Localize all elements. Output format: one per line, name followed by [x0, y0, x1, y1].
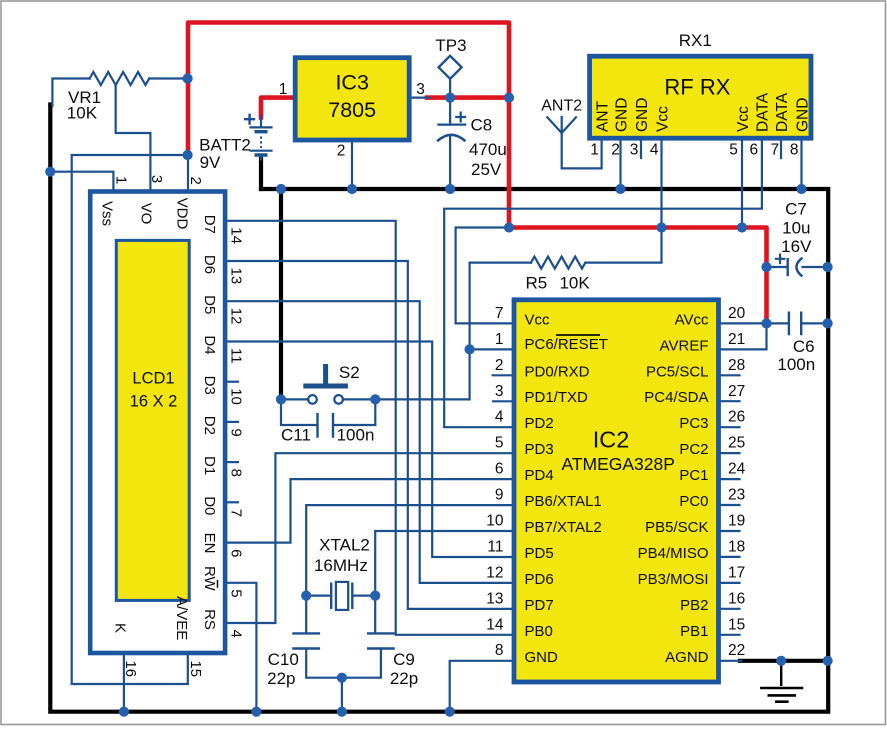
wire RX1 pin6 DATA to IC2 PD2 — [444, 138, 762, 427]
wire VR1 left lead to ground — [52, 79, 89, 107]
svg-text:7: 7 — [770, 142, 779, 159]
svg-text:5: 5 — [729, 142, 738, 159]
svg-text:PC5/SCL: PC5/SCL — [646, 363, 709, 380]
LCD D2 stub — [226, 421, 239, 423]
svg-text:3: 3 — [148, 175, 165, 183]
wire C11 right lead — [335, 399, 376, 425]
svg-text:BATT2: BATT2 — [199, 136, 251, 155]
svg-text:PD5: PD5 — [525, 545, 554, 562]
svg-text:470u: 470u — [469, 140, 507, 159]
svg-text:1: 1 — [495, 331, 504, 348]
wire RX1 pin5 to 5V — [741, 138, 743, 228]
svg-text:20: 20 — [728, 305, 746, 322]
svg-text:100n: 100n — [777, 355, 815, 374]
svg-text:PB1: PB1 — [680, 623, 708, 640]
wire 5V to LCD A pin15 — [72, 155, 188, 684]
svg-text:23: 23 — [728, 487, 745, 504]
node junction (306.2,595.6) — [301, 591, 311, 601]
node junction (509,97.6) — [504, 93, 514, 103]
svg-text:VDD: VDD — [174, 198, 191, 230]
node junction (450.1,189) — [445, 184, 455, 194]
IC2 pin2 stub — [493, 374, 514, 376]
switch S2 — [308, 395, 317, 404]
svg-text:D3: D3 — [201, 376, 218, 395]
svg-text:AVcc: AVcc — [675, 311, 709, 328]
svg-text:2: 2 — [495, 357, 504, 374]
svg-text:3: 3 — [495, 383, 504, 400]
svg-text:9: 9 — [495, 487, 504, 504]
svg-text:4: 4 — [228, 630, 245, 638]
svg-text:D5: D5 — [201, 295, 218, 314]
svg-text:AVREF: AVREF — [660, 337, 709, 354]
IC2 right unconnected pin stubs — [719, 374, 740, 376]
svg-text:26: 26 — [728, 409, 745, 426]
svg-text:4: 4 — [650, 142, 659, 159]
svg-text:K: K — [111, 623, 128, 633]
svg-text:12: 12 — [486, 564, 503, 581]
wire IC2 GND pin8 to ground bus — [450, 661, 514, 712]
battery BATT2 — [251, 126, 272, 128]
svg-text:6: 6 — [228, 549, 245, 557]
IC2 ATMEGA328P — [514, 300, 719, 682]
wire LCD RW to ground bus — [226, 583, 257, 712]
svg-text:Vcc: Vcc — [735, 106, 752, 132]
node junction (341.9,677.7) — [337, 673, 347, 683]
svg-text:PC1: PC1 — [679, 467, 708, 484]
svg-text:11: 11 — [487, 538, 503, 555]
svg-text:24: 24 — [728, 461, 746, 478]
wire 5V to LCD VDD pin2 — [187, 155, 189, 192]
capacitor C7 — [787, 258, 789, 276]
svg-text:DATA: DATA — [774, 92, 791, 132]
capacitor C8 — [438, 123, 465, 125]
svg-text:1: 1 — [590, 142, 599, 159]
svg-text:25V: 25V — [471, 160, 502, 179]
node junction (801.5,189) — [796, 184, 806, 194]
svg-text:9: 9 — [228, 428, 245, 436]
svg-text:8: 8 — [228, 469, 245, 477]
svg-text:EN: EN — [201, 533, 218, 554]
wire S2 right — [343, 398, 375, 400]
ground bus black frame — [50, 105, 828, 712]
wire battery minus lead black — [259, 159, 263, 189]
crystal leads — [306, 594, 375, 596]
svg-text:PC0: PC0 — [679, 493, 708, 510]
node junction (766.5,267) — [761, 262, 771, 272]
svg-text:28: 28 — [728, 357, 745, 374]
svg-text:1: 1 — [279, 81, 288, 98]
wire RX1 pin4 to 5V and R5 — [585, 138, 661, 263]
svg-text:16MHz: 16MHz — [314, 556, 368, 575]
wire LCD K pin16 to ground bus — [123, 653, 125, 712]
svg-text:RS: RS — [201, 609, 218, 630]
C6 leads — [767, 322, 829, 324]
svg-text:21: 21 — [728, 331, 745, 348]
svg-text:DATA: DATA — [755, 92, 772, 132]
IC RX1 RF receiver module — [590, 56, 811, 138]
svg-text:D4: D4 — [201, 335, 218, 354]
LCD1 pin RW (5) — [201, 566, 218, 592]
battery top lead — [260, 116, 262, 127]
resistor VR1 potentiometer — [90, 72, 150, 85]
svg-text:25: 25 — [728, 435, 745, 452]
wire antenna to RX1 pin1 — [562, 133, 602, 168]
svg-text:10u: 10u — [782, 219, 810, 238]
node junction (281,399.4) — [276, 394, 286, 404]
svg-text:8: 8 — [495, 642, 504, 659]
node junction (766.5,323.4) — [761, 318, 771, 328]
wire ground to LCD Vss pin1 — [50, 172, 113, 192]
svg-text:27: 27 — [728, 383, 745, 400]
node junction (469.6,349.4) — [465, 344, 475, 354]
svg-text:GND: GND — [794, 98, 811, 132]
svg-text:22p: 22p — [267, 669, 295, 688]
svg-text:16V: 16V — [781, 237, 812, 256]
wire 5V to IC2 Vcc pin7 — [456, 228, 514, 324]
node junction (661.5,227.5) — [656, 222, 666, 232]
LCD D1 stub — [226, 461, 239, 463]
svg-text:PD3: PD3 — [525, 441, 554, 458]
wire IC2 AGND pin22 — [714, 660, 741, 662]
svg-text:4: 4 — [495, 409, 504, 426]
svg-text:7805: 7805 — [328, 98, 376, 122]
wire R5 left lead to PC6 node and S2 — [375, 263, 531, 400]
resistor R5 — [531, 257, 585, 269]
svg-text:PD2: PD2 — [525, 415, 554, 432]
svg-text:18: 18 — [728, 538, 745, 555]
node junction (375.3,399.4) — [370, 394, 380, 404]
svg-text:PD4: PD4 — [525, 467, 554, 484]
svg-text:10K: 10K — [67, 104, 98, 123]
svg-text:6: 6 — [749, 142, 758, 159]
wire IC3 pin3 stub — [409, 96, 429, 98]
node junction (450.1,97.6) — [445, 93, 455, 103]
svg-text:10K: 10K — [559, 274, 590, 293]
ground — [780, 662, 782, 686]
wire LCD D5 to IC2 PD6 pin12 — [226, 301, 515, 583]
node junction (827.6,660.8) — [823, 656, 833, 666]
svg-text:LCD1: LCD1 — [132, 370, 174, 388]
svg-text:6: 6 — [495, 461, 504, 478]
svg-text:PB0: PB0 — [525, 623, 553, 640]
LCD D0 stub — [226, 501, 239, 503]
C10 top lead — [305, 596, 307, 634]
svg-text:16: 16 — [728, 590, 745, 607]
svg-text:19: 19 — [728, 513, 745, 530]
wire 5V rail to AVcc red — [509, 228, 767, 324]
svg-text:16: 16 — [122, 660, 139, 677]
svg-text:PC6/RESET: PC6/RESET — [525, 336, 608, 353]
svg-text:A/VEE: A/VEE — [173, 596, 190, 640]
svg-text:PC4/SDA: PC4/SDA — [644, 389, 708, 406]
svg-text:2: 2 — [187, 177, 204, 185]
wire C8 top lead — [449, 98, 451, 125]
node junction (375.2,595.6) — [370, 591, 380, 601]
node junction (281,189) — [276, 184, 286, 194]
svg-text:PB6/XTAL1: PB6/XTAL1 — [525, 493, 602, 510]
svg-text:13: 13 — [486, 590, 503, 607]
wire LCD D7 to IC2 PB0 pin14 — [226, 221, 515, 635]
svg-text:C9: C9 — [393, 650, 415, 669]
node junction (352,189) — [347, 184, 357, 194]
node junction (827.6,323.4) — [823, 318, 833, 328]
svg-text:16 X 2: 16 X 2 — [130, 393, 178, 411]
svg-text:ANT2: ANT2 — [541, 98, 582, 115]
svg-text:15: 15 — [187, 660, 204, 677]
svg-text:ANT: ANT — [594, 100, 611, 132]
svg-text:XTAL2: XTAL2 — [319, 536, 370, 555]
node junction (742,227.5) — [737, 222, 747, 232]
svg-text:PB3/MOSI: PB3/MOSI — [638, 571, 709, 588]
svg-text:PB5/SCK: PB5/SCK — [645, 519, 708, 536]
svg-text:10: 10 — [228, 388, 245, 405]
wire LCD D4 to IC2 PD5 pin11 — [226, 342, 515, 558]
wire VR1 wiper to LCD VO pin3 — [116, 85, 151, 192]
svg-text:15: 15 — [728, 616, 745, 633]
svg-text:Vcc: Vcc — [654, 106, 671, 132]
svg-text:C10: C10 — [268, 650, 299, 669]
svg-text:TP3: TP3 — [435, 36, 466, 55]
svg-text:ATMEGA328P: ATMEGA328P — [561, 454, 674, 474]
antenna ANT2 prongs — [547, 117, 576, 133]
wire RX1 pin2 to ground bus — [619, 138, 621, 189]
wire RX1 pin7 stub — [780, 138, 782, 158]
regulator IC3 7805 — [295, 58, 409, 140]
LCD D3 stub — [226, 381, 239, 383]
wire VR1 right lead to 5V — [149, 77, 187, 79]
svg-text:Vss: Vss — [99, 201, 116, 226]
svg-text:VO: VO — [138, 203, 155, 225]
IC2 pin3 stub — [493, 400, 514, 402]
svg-text:RX1: RX1 — [679, 31, 712, 50]
svg-text:D6: D6 — [201, 255, 218, 274]
capacitor C11 — [318, 413, 334, 438]
svg-text:2: 2 — [337, 143, 346, 160]
svg-text:9V: 9V — [200, 153, 221, 172]
node junction (449.7,711.7) — [445, 707, 455, 717]
svg-text:12: 12 — [228, 308, 245, 325]
wire S2 left — [281, 398, 308, 400]
capacitor C6 — [789, 312, 801, 336]
svg-text:GND: GND — [613, 98, 630, 132]
svg-text:IC2: IC2 — [593, 427, 630, 453]
wire AGND to border black — [740, 659, 828, 663]
node junction (509,227.5) — [504, 222, 514, 232]
svg-text:C7: C7 — [785, 200, 807, 219]
svg-text:Vcc: Vcc — [525, 311, 551, 328]
svg-text:PC3: PC3 — [679, 415, 708, 432]
crystal XTAL2 16MHz — [331, 583, 352, 610]
svg-text:D1: D1 — [201, 456, 218, 475]
wire S2 left drop black — [279, 189, 283, 399]
wire RX1 pin3 stub — [640, 138, 642, 158]
svg-text:AGND: AGND — [665, 649, 709, 666]
svg-text:D0: D0 — [201, 496, 218, 515]
svg-text:GND: GND — [634, 98, 651, 132]
svg-text:5: 5 — [228, 589, 245, 597]
wire IC2 AVcc pin20 — [714, 322, 767, 324]
svg-text:S2: S2 — [339, 363, 360, 382]
svg-text:22: 22 — [728, 642, 745, 659]
svg-text:PC2: PC2 — [679, 441, 708, 458]
svg-text:GND: GND — [525, 649, 559, 666]
C9/C10 junction to ground bus — [341, 678, 343, 712]
svg-text:8: 8 — [790, 142, 799, 159]
wire PC6/RESET pin1 — [470, 348, 514, 350]
svg-text:3: 3 — [630, 142, 639, 159]
C9 top lead — [374, 596, 376, 634]
battery bottom lead — [260, 155, 262, 160]
svg-text:IC3: IC3 — [335, 71, 369, 95]
svg-text:13: 13 — [228, 268, 245, 285]
node junction (620.5,189) — [615, 184, 625, 194]
wire C11 left lead — [281, 399, 316, 425]
wire IC3 pin3 to 5V node red — [427, 95, 509, 100]
svg-text:PB2: PB2 — [680, 597, 708, 614]
wire battery+ to IC3 pin1 red — [261, 98, 294, 118]
C10 bottom lead — [306, 649, 342, 678]
svg-text:PD1/TXD: PD1/TXD — [525, 389, 589, 406]
node junction (187.6,78.5) — [183, 73, 193, 83]
svg-text:PD6: PD6 — [525, 571, 554, 588]
svg-text:14: 14 — [486, 616, 504, 633]
wire IC2 AVREF pin21 — [714, 323, 767, 349]
svg-text:PD0/RXD: PD0/RXD — [525, 363, 590, 380]
svg-text:RF RX: RF RX — [664, 75, 730, 100]
node junction (187.6,155) — [183, 150, 193, 160]
node junction (341.9,711.7) — [337, 707, 347, 717]
capacitor C10 — [292, 633, 320, 648]
svg-text:C8: C8 — [471, 116, 493, 135]
test point TP3 — [439, 56, 462, 79]
node junction (256.4,711.7) — [251, 707, 261, 717]
C9 bottom lead — [342, 649, 381, 678]
svg-text:3: 3 — [416, 81, 425, 98]
svg-text:D2: D2 — [201, 416, 218, 435]
svg-text:2: 2 — [611, 142, 620, 159]
node junction (123.9,711.7) — [119, 707, 129, 717]
wire TP3 stem — [449, 78, 451, 98]
wire RX1 pin8 to ground bus — [800, 138, 802, 189]
svg-text:D7: D7 — [201, 215, 218, 234]
svg-text:PD7: PD7 — [525, 597, 554, 614]
svg-text:100n: 100n — [337, 426, 375, 445]
node junction (50.3,171.7) — [45, 167, 55, 177]
wire 5V rail loop red — [188, 23, 509, 228]
svg-text:R5: R5 — [526, 274, 548, 293]
svg-text:PB4/MISO: PB4/MISO — [638, 545, 709, 562]
svg-text:PB7/XTAL2: PB7/XTAL2 — [525, 519, 602, 536]
wire IC2 XTAL1 pin9 to crystal — [306, 505, 514, 595]
svg-text:14: 14 — [228, 227, 245, 244]
IC LCD1 16x2 display module — [90, 192, 225, 654]
wire IC2 XTAL2 pin10 to crystal — [375, 531, 514, 596]
svg-text:7: 7 — [495, 305, 504, 322]
wire C8 bottom lead — [449, 137, 451, 190]
svg-text:17: 17 — [728, 564, 745, 581]
svg-text:C6: C6 — [793, 337, 815, 356]
svg-text:22p: 22p — [390, 669, 418, 688]
wire LCD RS to IC2 PD3 pin5 — [226, 453, 515, 623]
svg-text:1: 1 — [113, 176, 130, 184]
svg-text:11: 11 — [228, 348, 245, 364]
C7 leads — [767, 266, 829, 268]
node junction (781.2,660.8) — [776, 656, 786, 666]
svg-text:5: 5 — [495, 435, 504, 452]
wire IC3 pin2 to ground bus — [351, 140, 353, 189]
svg-text:7: 7 — [228, 509, 245, 517]
node junction (827.6,267) — [823, 262, 833, 272]
capacitor C9 — [367, 633, 395, 648]
svg-text:10: 10 — [486, 513, 504, 530]
svg-text:RW: RW — [201, 566, 218, 592]
wire LCD D6 to IC2 PD7 pin13 — [226, 261, 515, 609]
wire LCD EN to IC2 PD4 pin6 — [226, 479, 515, 542]
svg-text:C11: C11 — [281, 426, 311, 445]
